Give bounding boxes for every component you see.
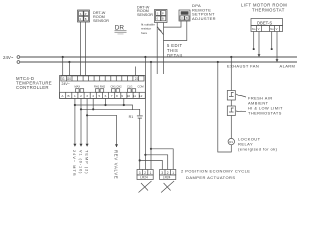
svg-text:LR24: LR24 xyxy=(163,176,171,180)
svg-text:0: 0 xyxy=(80,17,82,21)
svg-text:DAMPER ACTUATORS: DAMPER ACTUATORS xyxy=(186,175,236,180)
node G on bus1 xyxy=(62,56,64,58)
relay label xyxy=(238,137,278,152)
wire 24V bus line 2 xyxy=(20,61,297,63)
svg-text:3: 3 xyxy=(139,171,141,175)
thermostat TH terminal row xyxy=(251,26,283,32)
svg-text:No: No xyxy=(270,27,274,31)
wire TH terminal3 stub xyxy=(271,32,273,49)
wire S1 pin2 to controller xyxy=(85,22,87,76)
arrows field wires xyxy=(73,144,76,147)
svg-text:EXHAUST FAN: EXHAUST FAN xyxy=(227,63,259,68)
svg-text:24V~ MTR: 24V~ MTR xyxy=(72,150,76,177)
wire TH terminal2 to bus1 xyxy=(258,32,260,56)
thermostat TH label xyxy=(241,3,287,13)
leader squiggle T2 xyxy=(236,110,246,113)
wire terminal 4 drop xyxy=(92,98,94,109)
svg-text:24V~: 24V~ xyxy=(62,82,70,86)
svg-text:DETAIL: DETAIL xyxy=(167,53,184,58)
net label exhaust fan xyxy=(227,63,259,68)
node branch pin3 xyxy=(150,148,152,150)
node branch pin1 xyxy=(139,159,141,161)
wire terminal 2 to field xyxy=(80,98,82,146)
node relay return on bus2 xyxy=(217,61,219,63)
svg-text:G0: G0 xyxy=(67,77,71,81)
svg-text:THERMOSTAT: THERMOSTAT xyxy=(252,7,285,12)
svg-text:8: 8 xyxy=(116,94,118,98)
svg-text:COM: COM xyxy=(138,85,144,89)
svg-text:V: V xyxy=(276,27,278,31)
wire bus1 to controller terminal G xyxy=(62,57,64,76)
svg-text:CH1 CH2: CH1 CH2 xyxy=(111,85,123,89)
wire R1 to actuator M1 pin1 xyxy=(139,118,141,169)
svg-text:24V~: 24V~ xyxy=(3,55,14,60)
svg-text:B: B xyxy=(85,17,87,21)
pin 23 stub wire xyxy=(135,67,137,76)
relay contact symbols inside controller xyxy=(76,89,136,93)
thermostat TH box xyxy=(251,19,283,26)
sensor S1 label xyxy=(93,11,109,23)
terminal number labels xyxy=(61,94,142,98)
24V terminal circle top xyxy=(17,56,20,59)
wire terminal 6 drop xyxy=(105,98,107,105)
svg-text:ALARM: ALARM xyxy=(280,63,296,68)
svg-text:here: here xyxy=(141,31,147,35)
limit thermostat T1 xyxy=(227,91,235,101)
svg-text:CONTROLLER: CONTROLLER xyxy=(16,85,49,90)
svg-text:1: 1 xyxy=(150,171,152,175)
svg-text:SENSOR: SENSOR xyxy=(93,19,109,23)
wire terminal 9 drop xyxy=(123,98,125,105)
svg-text:MAX: MAX xyxy=(75,85,81,89)
svg-text:G: G xyxy=(62,77,65,81)
controller U1 top terminal row xyxy=(61,76,144,81)
svg-text:No: No xyxy=(252,27,256,31)
svg-text:3: 3 xyxy=(161,171,163,175)
wire routing H2 to R1 xyxy=(81,109,140,115)
node branch pin2 xyxy=(144,154,146,156)
sensor S2 DRT-W label xyxy=(137,5,153,17)
svg-text:RH1 RH2: RH1 RH2 xyxy=(94,85,106,89)
actuator M2 damper symbol xyxy=(161,181,174,193)
svg-text:ADJUSTER: ADJUSTER xyxy=(192,16,216,21)
actuator M1 damper symbol xyxy=(139,181,152,193)
svg-text:P: P xyxy=(162,11,164,15)
resistor R1 xyxy=(129,115,134,119)
svg-text:THERMOSTATS: THERMOSTATS xyxy=(248,111,282,116)
wire terminal 1 to field xyxy=(74,98,76,146)
svg-text:V1 (0-10): V1 (0-10) xyxy=(78,150,82,174)
sensor S1 DRT-W box xyxy=(78,10,90,22)
svg-text:2: 2 xyxy=(144,171,146,175)
svg-text:SENSOR: SENSOR xyxy=(137,13,153,17)
svg-text:0: 0 xyxy=(157,17,159,21)
svg-text:V: V xyxy=(258,27,260,31)
wire branch to actuator M2 pin2 xyxy=(145,155,167,170)
resistor diagonal (to be fitted) xyxy=(157,27,163,35)
wire routing H1 xyxy=(75,105,133,110)
svg-text:TEMP (2): TEMP (2) xyxy=(85,150,89,175)
actuator M1 terminals xyxy=(137,170,153,175)
wire bus2 to controller terminal G0 xyxy=(68,62,70,76)
svg-text:5: 5 xyxy=(99,94,101,98)
svg-text:1: 1 xyxy=(74,94,76,98)
wire TH terminal1 stub xyxy=(253,32,255,49)
internal labels xyxy=(75,85,144,89)
svg-text:7: 7 xyxy=(111,94,113,98)
callout note 5 edit this detail xyxy=(167,43,184,58)
svg-text:0: 0 xyxy=(181,16,183,20)
wire relay R1 to bus2 xyxy=(218,62,232,152)
wire terminal 3 to field xyxy=(86,98,88,146)
svg-text:2: 2 xyxy=(80,94,82,98)
node actuator bus2 xyxy=(150,61,152,63)
svg-text:B: B xyxy=(186,16,188,20)
DR emblem xyxy=(115,25,125,32)
wire branch to actuator M2 pin3 xyxy=(151,149,173,170)
svg-text:2: 2 xyxy=(167,171,169,175)
actuators label xyxy=(181,169,250,180)
svg-text:R1: R1 xyxy=(229,140,233,144)
svg-text:S: S xyxy=(80,12,82,16)
node actuator bus1 xyxy=(144,56,146,58)
wire bus1 to actuator M1 pin2 xyxy=(144,57,146,170)
wire DPA pin1 to S2 pin2 xyxy=(164,21,182,27)
thermostats label xyxy=(248,96,283,116)
svg-text:3: 3 xyxy=(86,94,88,98)
adjuster DPA label xyxy=(192,3,216,21)
controller U1 bottom terminal row xyxy=(60,92,146,98)
sensor S2 DRT-W box xyxy=(155,10,168,23)
wire S2 pin2 down to node with DPA xyxy=(163,23,165,75)
adjuster DPA box xyxy=(179,10,190,21)
svg-text:P: P xyxy=(85,12,87,16)
svg-text:2 POSITION ECONOMY CYCLE: 2 POSITION ECONOMY CYCLE xyxy=(181,169,250,174)
svg-text:4: 4 xyxy=(92,94,94,98)
svg-text:10: 10 xyxy=(127,94,131,98)
svg-text:11: 11 xyxy=(133,94,136,98)
svg-text:12: 12 xyxy=(139,94,143,98)
svg-text:S: S xyxy=(157,11,159,15)
actuator M2 terminals xyxy=(160,170,176,175)
controller U1 outline xyxy=(60,75,146,98)
svg-text:R1: R1 xyxy=(129,115,134,119)
wire DPA pin2 to resistor node xyxy=(164,21,187,41)
svg-text:6: 6 xyxy=(105,94,107,98)
svg-text:REV VALVE: REV VALVE xyxy=(114,150,119,179)
wire bus1 to limit thermostat T1 xyxy=(230,57,232,91)
wire bus2 to actuator M1 pin3 xyxy=(150,62,152,170)
svg-text:DBET-S: DBET-S xyxy=(257,20,272,25)
pin labels G G0 24V xyxy=(62,77,139,81)
24V supply label xyxy=(3,55,14,60)
svg-text:(energised for ok): (energised for ok) xyxy=(238,147,278,152)
wire TH terminal4 to bus2 xyxy=(276,32,278,61)
leader squiggle T1 xyxy=(236,94,246,97)
wire S1 pin1 to controller xyxy=(80,22,82,76)
svg-text:23: 23 xyxy=(135,77,139,81)
wire 24V bus line 1 xyxy=(20,56,297,58)
resistor note text xyxy=(141,22,155,34)
svg-text:B: B xyxy=(162,17,164,21)
svg-text:LR24: LR24 xyxy=(140,176,148,180)
relay R1 coil xyxy=(228,138,234,144)
net label alarm xyxy=(280,63,296,68)
controller U1 label xyxy=(16,76,52,90)
limit thermostat T2 xyxy=(227,106,235,116)
wire branch to actuator M2 pin1 xyxy=(140,160,163,169)
node thermostat chain on bus1 xyxy=(230,56,232,58)
node G0 on bus2 xyxy=(68,61,70,63)
svg-text:CLG: CLG xyxy=(127,85,132,89)
svg-text:1: 1 xyxy=(172,171,174,175)
svg-text:9: 9 xyxy=(121,94,123,98)
wire T2 to relay R1 xyxy=(230,116,232,139)
svg-text:B: B xyxy=(68,94,70,98)
rotated field labels xyxy=(72,150,118,179)
svg-text:A: A xyxy=(61,94,64,98)
wire S2 pin1 down xyxy=(156,23,158,75)
24V terminal circle bottom xyxy=(17,61,20,64)
wire T1 to T2 xyxy=(230,100,232,106)
wire routing H3 to rev valve xyxy=(87,115,116,147)
